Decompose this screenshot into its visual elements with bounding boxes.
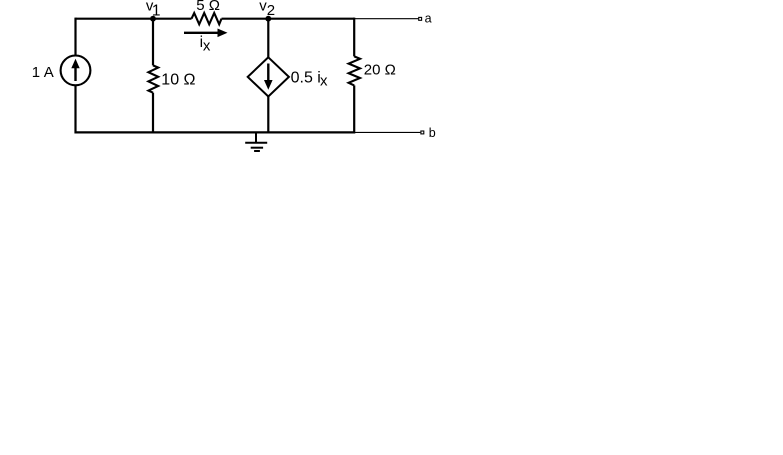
node v1 dot [150,16,156,22]
wire right branch lower [353,85,355,133]
resistor R2 5ohm zigzag [192,13,222,24]
label v2 [259,0,275,19]
resistor R1 10ohm zigzag [148,65,158,92]
wire left branch lower [74,86,76,134]
wire top right (resistor to right branch) [222,18,355,20]
ground bar 3 [254,150,260,152]
wire right branch upper [353,18,355,57]
wire branch v2 upper [267,19,269,58]
svg-text:0.5 i: 0.5 i [291,70,321,87]
current arrow ix [184,29,228,38]
wire top left (v1 to source) [76,18,192,20]
terminal a square [419,17,422,20]
wire branch v1 lower [152,93,154,133]
wire branch v1 upper [152,19,154,66]
current source I1 arrow [71,59,79,81]
svg-text:10 Ω: 10 Ω [161,72,195,89]
svg-text:a: a [425,11,432,25]
svg-text:x: x [203,38,211,55]
current source I1 circle [61,56,91,86]
wire left branch upper [74,18,76,56]
wire terminal a [354,18,418,20]
wire branch v2 lower [267,96,269,132]
terminal b square [421,131,424,134]
resistor R3 20ohm zigzag [349,56,360,85]
svg-text:5 Ω: 5 Ω [196,0,220,14]
ground bar 2 [251,147,263,149]
svg-text:20 Ω: 20 Ω [364,62,396,79]
dependent source U1 arrow [264,64,273,90]
svg-text:b: b [429,126,436,140]
dependent source U1 diamond [248,57,289,96]
svg-text:1: 1 [32,64,40,81]
svg-text:2: 2 [267,2,275,19]
label 0.5 ix [291,70,328,90]
ground bar 1 [245,142,267,144]
label v1 [146,0,161,19]
svg-text:x: x [320,73,328,90]
svg-text:1: 1 [152,2,161,19]
ground stem [255,132,257,142]
svg-text:A: A [44,64,54,81]
label ix [200,34,211,55]
wire terminal b [354,131,420,133]
wire bottom [76,131,355,133]
node v2 dot [265,16,271,22]
